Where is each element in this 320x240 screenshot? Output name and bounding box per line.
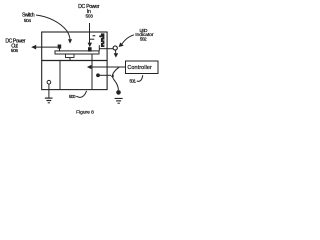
svg-text:Controller: Controller: [127, 65, 152, 71]
svg-text:500: 500: [69, 94, 76, 100]
svg-text:503: 503: [86, 14, 94, 20]
svg-text:504: 504: [24, 18, 32, 24]
svg-text:506: 506: [11, 48, 19, 54]
svg-text:Switch: Switch: [22, 12, 35, 18]
svg-text:Figure 8: Figure 8: [76, 110, 94, 116]
svg-text:501: 501: [129, 79, 136, 85]
svg-text:502: 502: [140, 36, 147, 42]
